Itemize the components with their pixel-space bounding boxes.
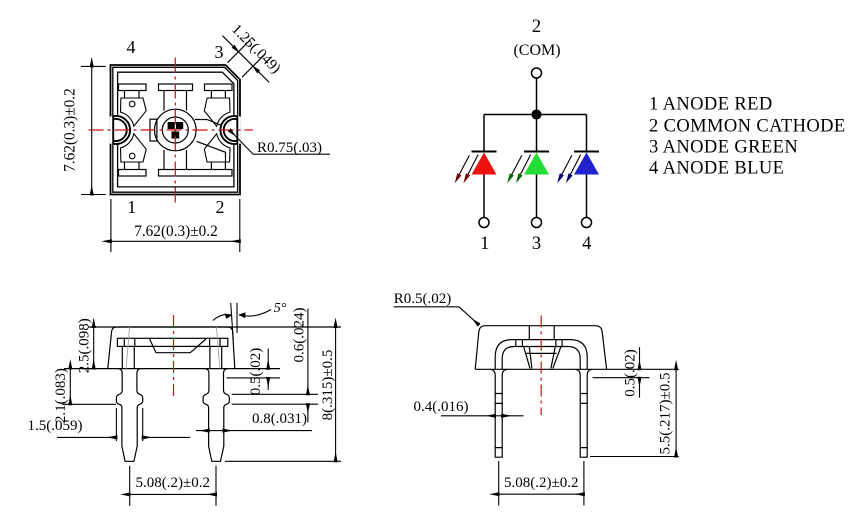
- dimension 1.5 lead barb width: [116, 408, 142, 441]
- svg-text:0.5(.02): 0.5(.02): [248, 348, 264, 396]
- dimension 5.5 lead length: [590, 456, 679, 458]
- leader R0.75: [230, 130, 253, 154]
- dimension 1.25 chamfer: dimension line with arrows: [223, 36, 234, 47]
- svg-text:7.62(0.3)±0.2: 7.62(0.3)±0.2: [62, 88, 79, 172]
- svg-text:5.5(.217)±0.5: 5.5(.217)±0.5: [658, 373, 674, 455]
- svg-text:0.8(.031): 0.8(.031): [252, 411, 307, 427]
- emission arrows LED D1: [455, 155, 479, 184]
- cathode bar of LED D2: [524, 151, 549, 153]
- pad bar pin 4: [119, 84, 147, 91]
- svg-text:8(.315)±0.5: 8(.315)±0.5: [320, 350, 336, 421]
- dimension 7.62 horizontal: dimension line: [111, 240, 240, 242]
- svg-text:1 ANODE RED: 1 ANODE RED: [649, 95, 773, 115]
- dimension 1.25 chamfer: extension lines: [228, 40, 266, 77]
- svg-text:0.4(.016): 0.4(.016): [414, 399, 469, 415]
- dimension 0.5 standoff: [227, 377, 281, 379]
- dimension 0.5 standoff (side view): [593, 377, 650, 379]
- top reference line: [89, 326, 342, 328]
- body outline: [475, 326, 606, 370]
- dimension 0.4 lead thickness: [441, 415, 495, 417]
- package second outline: [113, 67, 238, 192]
- terminal pin 3: [532, 218, 542, 228]
- wire bus to D3 cathode: [586, 115, 588, 152]
- internal leg lines: [122, 346, 221, 368]
- reflector cup walls: [524, 347, 532, 369]
- dimension 2.1: [62, 403, 116, 405]
- package cavity outline: [118, 72, 234, 187]
- wire bus to D2 cathode: [536, 115, 538, 152]
- svg-text:(COM): (COM): [513, 42, 560, 59]
- dimensions top view: [81, 36, 330, 252]
- dimension 7.62 horizontal: extension lines: [111, 199, 240, 252]
- svg-text:1: 1: [480, 234, 489, 254]
- centerline vertical (front view): [173, 315, 175, 400]
- svg-text:0.6(.024): 0.6(.024): [292, 308, 308, 363]
- dimension 5.08 lead pitch (side view): [499, 461, 584, 506]
- wire bus to D1 cathode: [483, 115, 485, 152]
- right bridge lines: [195, 120, 222, 126]
- cathode bar of LED D1: [472, 151, 497, 153]
- wire pin2 to junction: [536, 78, 538, 110]
- dimension 8 overall height: [225, 460, 341, 462]
- pad bar center top: [159, 84, 193, 91]
- die pad circle: [150, 109, 226, 162]
- svg-text:R0.75(.03): R0.75(.03): [257, 140, 322, 156]
- leg ticks: [495, 394, 502, 448]
- svg-text:4: 4: [127, 37, 136, 57]
- svg-text:5.08(.2)±0.2: 5.08(.2)±0.2: [136, 475, 210, 491]
- terminal pin 2 (common cathode): [532, 68, 542, 78]
- leader R0.5: [394, 306, 459, 308]
- centerline horizontal (top view): [89, 129, 254, 131]
- dimension 7.62 vertical: dimension line: [91, 66, 93, 194]
- svg-text:1: 1: [127, 197, 136, 217]
- upper-right clip: [204, 98, 230, 126]
- top posts: [529, 326, 554, 340]
- svg-text:4 ANODE BLUE: 4 ANODE BLUE: [649, 159, 784, 179]
- cathode bar of LED D3: [574, 151, 599, 153]
- svg-text:2.1(.083): 2.1(.083): [53, 368, 69, 423]
- LED D1 red triangle: [472, 153, 497, 175]
- svg-text:2: 2: [532, 17, 541, 37]
- lower-right clip: [204, 134, 230, 162]
- svg-text:2.5(.098): 2.5(.098): [77, 318, 93, 373]
- svg-text:3: 3: [215, 42, 224, 62]
- dimension 5.08 lead pitch: [130, 466, 216, 506]
- LED D3 blue triangle: [574, 153, 599, 175]
- right notch: [220, 116, 240, 144]
- centerline vertical (top view): [174, 58, 176, 203]
- svg-text:3: 3: [532, 234, 541, 254]
- svg-text:2 COMMON CATHODE: 2 COMMON CATHODE: [649, 117, 846, 137]
- LED chip green: [176, 122, 183, 129]
- terminal pin 1: [479, 218, 489, 228]
- left leg: [116, 369, 142, 462]
- left tab: [150, 119, 157, 141]
- terminal pin 4: [582, 218, 592, 228]
- dimensions left view: [57, 303, 341, 506]
- pad bar pin 2 (merged): [159, 170, 233, 177]
- dimension 7.62 vertical: extension lines: [81, 66, 106, 194]
- svg-text:1.5(.059): 1.5(.059): [28, 418, 83, 434]
- body outline: [108, 327, 235, 369]
- dimensions right view: [394, 307, 679, 506]
- internal post draft lines: [126, 327, 220, 369]
- lead frame pads: top bars: [119, 84, 233, 176]
- wire D2 anode to pin 3: [536, 175, 538, 218]
- LED chip blue: [172, 132, 180, 139]
- lead frame bends: [495, 340, 587, 370]
- reflector cup: [150, 339, 206, 353]
- svg-text:5°: 5°: [274, 301, 287, 316]
- junction node (common cathode): [532, 110, 541, 119]
- internal strip: [117, 338, 227, 346]
- left notch: [110, 116, 130, 144]
- centerline vertical (side view): [540, 316, 542, 416]
- svg-text:7.62(0.3)±0.2: 7.62(0.3)±0.2: [134, 223, 218, 240]
- wire common bus: [484, 114, 587, 116]
- dimension 2.5 body height: [93, 327, 95, 369]
- emission arrows LED D2: [507, 155, 531, 184]
- svg-text:5.08(.2)±0.2: 5.08(.2)±0.2: [504, 475, 578, 491]
- svg-text:0.5(.02): 0.5(.02): [623, 349, 639, 397]
- svg-text:2: 2: [216, 197, 225, 217]
- LED chip red: [168, 122, 175, 129]
- LED D2 green triangle: [524, 153, 549, 175]
- legs: [491, 369, 507, 457]
- dimension 0.8 lead width: [196, 430, 209, 432]
- strip dividers: [516, 340, 562, 347]
- emission arrows LED D3: [557, 155, 581, 184]
- package outer outline: [111, 65, 241, 195]
- wire D1 anode to pin 1: [483, 175, 485, 218]
- dimension 5 degree draft angle: [236, 303, 238, 333]
- clips with circles: [121, 98, 231, 162]
- svg-text:3 ANODE GREEN: 3 ANODE GREEN: [649, 138, 798, 158]
- bottom reference line: [64, 368, 280, 370]
- svg-text:4: 4: [582, 234, 591, 254]
- cup bottom: [526, 352, 556, 354]
- upper-left clip: [121, 98, 147, 126]
- svg-text:R0.5(.02): R0.5(.02): [394, 291, 452, 307]
- pad bar pin 3: [205, 84, 233, 91]
- pad bar pin 1: [119, 170, 147, 177]
- right leg: [203, 369, 229, 462]
- lower-left clip: [121, 134, 147, 162]
- dimension 0.6 barb height: [232, 394, 318, 404]
- wire D3 anode to pin 4: [586, 175, 588, 218]
